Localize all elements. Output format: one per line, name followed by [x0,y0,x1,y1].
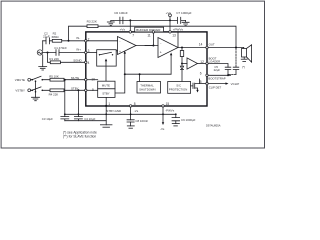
block STBY [98,89,115,98]
wire input ground vertical [42,41,44,67]
svg-text:7: 7 [132,33,134,37]
switch SW1 (mute) [31,76,43,82]
svg-text:MUTE: MUTE [102,83,110,87]
svg-text:C9 1000µF: C9 1000µF [181,118,196,122]
svg-text:+: + [119,50,121,54]
svg-text:14: 14 [199,42,203,46]
pin 11 [152,31,154,33]
svg-text:1: 1 [108,102,110,106]
buffer driver label box (pin 11) [135,27,164,32]
wire IN- interior [87,40,118,42]
wire pin15 riser / -Vs feed [162,107,164,123]
pin 14 [206,46,208,48]
svg-text:13: 13 [172,34,176,38]
svg-text:C1 470nF: C1 470nF [54,46,67,50]
svg-text:BUFFER DRIVER: BUFFER DRIVER [136,28,161,32]
capacitor C4 10uF [74,114,95,121]
node +Vs rail / pin7 riser junction [129,19,131,21]
svg-text:C8 100nF: C8 100nF [135,119,148,123]
wire stby row [42,89,84,91]
speaker LS1 [242,45,252,62]
node +Vs rail / terminal junction [169,19,171,21]
svg-text:-: - [160,41,161,45]
wire resistor leads [181,48,183,51]
resistor internal [180,51,183,57]
svg-text:VSTBY: VSTBY [15,89,25,93]
wire mute row [42,79,84,81]
op-amp U1b [158,38,178,58]
pin 3 [85,51,87,53]
node IN- / R3 junction [68,40,70,42]
terminal -Vs arrow [160,122,165,131]
ground (switches) [32,97,40,100]
ground (C8) [127,125,134,127]
wire pin8 riser [130,107,132,120]
capacitor C3 10uF [42,114,69,121]
wire caps ground link [65,120,106,122]
pin 8 [129,105,131,107]
svg-text:-PWVs: -PWVs [165,109,175,113]
IC U1 body [86,32,207,106]
block THERMAL SHUTDOWN [137,82,161,94]
node resistor / buffer junction [181,63,183,65]
terminal +Vs [166,11,172,21]
op-amp U1c (boot buffer) [182,58,205,69]
svg-text:8: 8 [134,102,136,106]
resistor R4 22K [49,89,64,97]
block MUTE [98,81,115,89]
wire pin12 to C5 [208,64,228,68]
svg-text:22µF: 22µF [43,35,50,39]
svg-text:6: 6 [200,71,202,75]
wire pin7 riser [129,20,131,31]
wire clip det with arrow [208,82,228,84]
svg-text:OUT: OUT [209,43,215,47]
svg-text:22µF: 22µF [214,68,221,72]
node OUT / resistor junction [181,47,183,49]
svg-text:15: 15 [166,102,170,106]
node rail / pin8 [130,113,132,115]
pin 5 [206,82,208,84]
transistor clip detect [191,79,206,93]
node rail / C4 [78,113,80,115]
pin 9 [85,89,87,91]
node IN+ / R1 junction [47,52,49,54]
svg-text:-: - [119,39,120,43]
svg-text:R1 22K: R1 22K [49,57,59,61]
ground (C7) [182,20,189,25]
svg-text:R3 22K: R3 22K [87,19,98,23]
wire box to op-amp [116,50,117,52]
svg-text:R4 22K: R4 22K [49,92,59,96]
wire bottom rail [65,113,176,115]
svg-text:BOOTSTRAP: BOOTSTRAP [208,76,225,80]
wire mute control arrow [105,59,107,82]
capacitor C6 100nF [114,11,128,24]
pin 12 [206,62,208,64]
svg-text:(**) for SLAVE function: (**) for SLAVE function [63,135,96,139]
pin 4 [85,61,87,63]
resistor R2 680ohm [52,32,62,43]
wire switch ground link [35,81,37,97]
wire stby-gnd riser [105,97,107,105]
ground (main) [100,124,112,126]
wire IN+ interior [87,52,97,54]
svg-text:SGND: SGND [73,59,81,63]
node C5 / bootstrap junction [227,74,229,76]
node bus / stby riser [124,73,126,75]
capacitor optional boot ext [233,67,239,74]
svg-text:(*): (*) [242,65,245,69]
node rail / C3 [64,113,66,115]
svg-text:STBY-GND: STBY-GND [106,109,121,113]
wire pin1 riser to ground [105,106,107,125]
svg-text:MUTE: MUTE [71,76,79,80]
svg-text:4: 4 [88,61,90,65]
capacitor C9 1000uF [172,114,196,123]
node mute / C3 junction [64,79,66,81]
resistor R3 22K [87,19,98,27]
svg-text:-Vs: -Vs [134,109,139,113]
pin 10 [85,79,87,81]
ground (C6 left) [111,20,113,21]
svg-text:680Ω: 680Ω [52,35,60,39]
node stby / C4 junction [77,89,79,91]
svg-text:STBY: STBY [102,92,110,96]
ground (speaker) [241,58,247,60]
svg-text:PROTECTION: PROTECTION [169,88,187,92]
mute switch box [97,50,117,66]
wire OUT to speaker [208,47,244,49]
svg-text:5: 5 [200,80,202,84]
switch SW2 (stby) [31,87,43,93]
wire mute interior [87,79,98,81]
node rail / pin1 [105,113,107,115]
wire bus arrow into U1b [170,53,172,75]
node rail / pin15 [162,113,164,115]
wire +Vs rail [113,19,177,21]
wire OUT row internal [178,47,205,49]
svg-text:+PWVs: +PWVs [173,28,184,32]
svg-text:VCLIP: VCLIP [231,82,240,86]
svg-text:+Vs: +Vs [166,11,172,15]
svg-text:CLIP DET: CLIP DET [209,85,222,89]
signal source V1 [37,50,42,55]
svg-text:D97AU805A: D97AU805A [206,123,221,127]
svg-text:11: 11 [147,33,151,37]
svg-text:12: 12 [200,60,204,64]
wire dashed option [235,49,237,68]
pin 2 [85,40,87,42]
wire control bus [125,73,171,75]
wire dashed option link [228,73,236,75]
capacitor C1 470nF [54,46,67,55]
pin 15 [162,105,164,107]
block S/C PROTECTION [168,82,191,94]
ground (C9) [172,123,179,125]
capacitor C8 100nF [127,119,148,126]
wire feedback line R3 to OUT [69,26,237,47]
capacitor C2 22uF [43,32,50,44]
terminal VSTBY [15,89,30,93]
pin 13 [169,31,171,33]
svg-text:C6 100nF: C6 100nF [114,11,128,15]
label BOOT LOADER [209,56,221,63]
wire pin13 riser [169,20,171,31]
wire IN- row [43,40,85,42]
wire stby control riser with arrow into U1a [115,51,126,93]
resistor R1 22K [49,57,60,64]
wire R1 branch [48,53,85,63]
svg-text:R5 10K: R5 10K [49,75,59,79]
svg-text:STBY: STBY [71,87,79,91]
diode internal [180,57,183,82]
terminal VMUTE [15,78,31,82]
ground (input) [39,67,47,70]
svg-text:VMUTE: VMUTE [15,78,25,82]
wire stby interior [87,89,98,91]
pin 1 [105,105,107,107]
capacitor C7 1000uF [176,11,191,23]
wire +PWVs internal drop [177,33,179,48]
svg-text:-Vs: -Vs [160,127,165,131]
wire bus to thermal block [139,74,141,81]
wire IN+ row [43,52,85,54]
svg-text:C3 10µF: C3 10µF [42,117,53,121]
svg-text:+Vs: +Vs [120,28,126,32]
node intermediate thick segment [145,45,153,47]
node rail / C9 [175,113,177,115]
pin 7 [129,31,131,33]
wire C4 drop [77,90,79,114]
svg-text:IN+: IN+ [76,47,81,51]
wire C3 drop [64,80,66,115]
svg-text:C7 1000µF: C7 1000µF [176,11,191,15]
pin 6 [206,74,208,76]
svg-text:SHUTDOWN: SHUTDOWN [139,88,155,92]
resistor R5 10K [49,75,64,82]
op-amp U1a [118,37,137,55]
wire pin 11 stub [152,33,154,45]
capacitor C5 22uF [214,65,231,76]
node OUT / feedback junction [235,47,237,49]
svg-text:+: + [160,51,162,55]
svg-text:IN-: IN- [76,36,80,40]
wire bootstrap row [208,74,230,76]
wire U1a output to U1b [136,45,158,47]
